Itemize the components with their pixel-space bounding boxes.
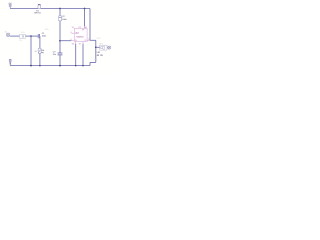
wire IC bottom pin2 to rail [82, 44, 84, 66]
wire ground rail [10, 65, 90, 67]
svg-text:TDA7052: TDA7052 [76, 36, 85, 39]
wire C1 to corner down [39, 36, 41, 48]
node junction rail x=75.7 [75, 65, 77, 67]
svg-text:100n: 100n [45, 29, 49, 31]
wire IC bottom pin1 to rail [75, 44, 77, 66]
svg-text:4: 4 [70, 32, 71, 34]
capacitor C1 plates (series) [38, 34, 39, 38]
IC U1 pin stub left nc [71, 32, 74, 34]
IC U1 TDA7052 box [74, 28, 87, 41]
node junction top at x=60 [59, 8, 61, 10]
wire x=31 down to ground rail [30, 36, 32, 66]
wire output vertical x=95.8 [95, 40, 97, 62]
capacitor C3 plates on x=60 [58, 53, 63, 55]
potentiometer R2 box [38, 48, 41, 53]
IC U1 pin numbers [70, 27, 89, 46]
node junction rail x=31 [30, 65, 32, 67]
input connector X1 pad [6, 33, 10, 37]
svg-text:8R 1W: 8R 1W [97, 55, 103, 57]
IC U1 pin stub bottom 2 [82, 42, 84, 44]
filter box component [20, 34, 26, 38]
wire bias tap to IC input pin [60, 40, 71, 42]
wire x=90 down right side [89, 9, 91, 41]
node junction top at x=84.5 [84, 8, 86, 10]
svg-text:4k7: 4k7 [34, 51, 37, 53]
svg-text:100n: 100n [21, 32, 25, 34]
supply +9V symbol [9, 4, 12, 9]
speaker connector pad [107, 46, 111, 49]
node junction rail x=83 [82, 65, 84, 67]
wire below R2 to rail [39, 53, 41, 65]
IC U1 pin names [75, 30, 87, 43]
node junction bias tap (60,40.7) [59, 40, 61, 42]
wire x=84.5 to IC top pin [84, 9, 86, 27]
svg-text:100n: 100n [42, 35, 46, 37]
svg-text:O1: O1 [84, 40, 86, 42]
svg-text:5: 5 [88, 39, 89, 41]
node junction speaker tap [95, 46, 97, 48]
svg-text:G7: G7 [79, 43, 81, 45]
wire output right jog [90, 39, 96, 41]
node junction rail x=60 [59, 65, 61, 67]
wire input to filter box [10, 35, 19, 37]
svg-text:10u: 10u [53, 54, 56, 56]
wire top rail [10, 8, 38, 10]
wire bottom return jog [90, 62, 96, 65]
svg-text:DPDT-S: DPDT-S [34, 13, 41, 15]
speaker LS1 box [100, 45, 107, 50]
wire filter box to C1 [26, 35, 38, 37]
wire to speaker [96, 46, 100, 48]
IC U1 pin stub top [84, 26, 86, 28]
resistor R1 box on x=60 [59, 16, 62, 21]
IC U1 pin stub right output [87, 39, 90, 41]
node junction rail x=40.4 [39, 65, 41, 67]
svg-text:B8: B8 [84, 27, 86, 29]
svg-text:8R2: 8R2 [94, 59, 97, 61]
svg-text:log: log [41, 52, 44, 54]
svg-text:47n: 47n [19, 40, 22, 42]
wire top rail right of switch [41, 8, 90, 10]
svg-text:100u: 100u [62, 19, 66, 21]
node junction at (31,36.1) [30, 35, 32, 37]
svg-text:P2: P2 [79, 27, 81, 29]
ground symbol bottom-left [9, 59, 12, 65]
IC U1 pin stub bottom 1 [75, 42, 77, 44]
IC U1 pin stub left input [71, 40, 74, 42]
switch S1 [38, 5, 41, 9]
wire bias branch x=60 [59, 9, 61, 53]
svg-text:G6: G6 [72, 43, 74, 45]
svg-text:3: 3 [70, 39, 71, 41]
svg-text:V1: V1 [72, 27, 74, 29]
